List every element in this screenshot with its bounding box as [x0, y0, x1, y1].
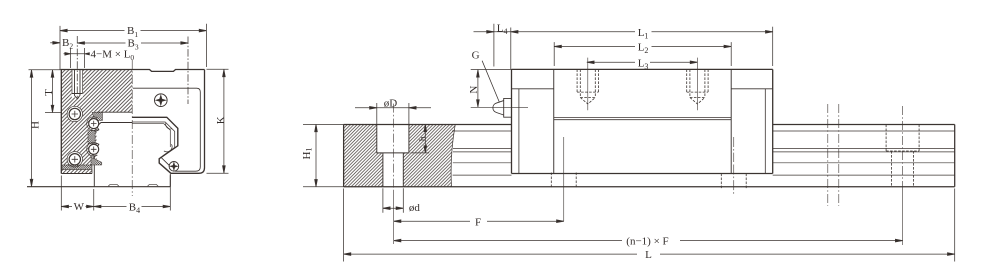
G leader line	[482, 61, 499, 103]
svg-text:H1: H1	[301, 148, 314, 160]
svg-text:K: K	[215, 116, 227, 124]
rail groove lines right of block	[773, 131, 955, 175]
svg-text:B2: B2	[62, 37, 73, 51]
svg-text:L4: L4	[497, 22, 508, 36]
T bottom extension line	[45, 112, 61, 114]
od dimension double arrow	[383, 207, 403, 209]
screw top (phillips)	[155, 94, 168, 107]
ball bore 2 white	[67, 151, 83, 167]
H1 dimension line	[315, 125, 317, 187]
T top extension line	[29, 69, 62, 71]
ball bore 1 white	[67, 106, 83, 122]
screw bottom (phillips)	[169, 162, 179, 172]
tapped hole minor diameter	[72, 70, 83, 99]
T dimension line	[52, 70, 54, 113]
centerline of left view	[131, 60, 133, 196]
end cap parting lines	[554, 69, 731, 173]
svg-text:T: T	[43, 89, 55, 96]
counterbore white pocket	[377, 124, 409, 187]
black seal piece P3 below ball 4	[91, 157, 102, 165]
counterbore outline	[377, 125, 409, 187]
end plate inner contour	[133, 88, 200, 171]
carriage outline with top recess	[61, 70, 204, 174]
ball 4 retainer arc	[87, 142, 98, 156]
svg-text:L3: L3	[638, 57, 649, 71]
svg-text:L: L	[645, 249, 652, 261]
svg-text:(n−1) × F: (n−1) × F	[626, 235, 668, 247]
ball 1	[69, 108, 80, 119]
svg-text:G: G	[472, 50, 480, 62]
L extension lines	[344, 189, 955, 262]
rail section break line	[451, 125, 455, 187]
carriage ceiling line (section)	[97, 111, 133, 113]
L1 right extension	[772, 27, 774, 66]
rail hole 2 dashed (under block)	[551, 173, 576, 189]
carriage hatched section (left half)	[61, 70, 132, 165]
block mounting hole left (dashed)	[577, 69, 598, 104]
rail hole 2 centerline	[563, 137, 565, 221]
B3 dimension line	[77, 42, 188, 44]
svg-text:N: N	[468, 86, 480, 94]
svg-text:L1: L1	[638, 27, 649, 41]
svg-text:H: H	[30, 121, 42, 129]
4-M extension lines	[71, 48, 85, 68]
hole left centerline	[587, 58, 589, 111]
rail hatched lengthwise section	[344, 125, 456, 187]
rail hole 4 centerline	[902, 106, 904, 190]
ball 4	[89, 144, 99, 154]
h dimension	[411, 152, 430, 154]
leg lower hatched strip	[61, 170, 92, 174]
nipple centerline	[471, 106, 528, 108]
oD dimension line with outside arrows	[355, 107, 431, 109]
rail outline: left end, top, bottom	[344, 125, 955, 187]
rail hole 3 dashed (under end cap)	[721, 174, 746, 189]
svg-text:W: W	[74, 201, 85, 213]
F dimension line	[394, 220, 564, 222]
B3 right extension centerline	[187, 37, 189, 105]
W dimension line	[61, 206, 93, 208]
grease nipple	[504, 98, 512, 117]
ball 2	[69, 154, 80, 165]
B4 dimension line	[94, 206, 171, 208]
od extension lines	[383, 188, 403, 213]
B2 outside arrow	[50, 42, 60, 44]
L4 extension line	[493, 24, 495, 67]
svg-text:4−M × L0: 4−M × L0	[91, 48, 135, 62]
block top extension to left	[471, 68, 512, 70]
N dimension	[477, 70, 479, 107]
hole centerline ext for B2/B3	[76, 36, 78, 99]
block outline	[512, 69, 773, 173]
hole right centerline	[696, 58, 698, 111]
ball 1 bore	[67, 106, 82, 121]
(n-1)xF dimension line	[394, 240, 903, 242]
svg-text:L2: L2	[638, 42, 649, 56]
bottom seal checker strip	[62, 165, 92, 170]
L4 dimension line + outside arrow	[474, 31, 511, 33]
block mounting hole right (dashed)	[687, 69, 708, 104]
K dimension line	[223, 70, 225, 173]
L3 dimension line	[587, 61, 698, 63]
L1/L4 left extension	[510, 28, 512, 70]
rail bottom bumps	[108, 185, 158, 187]
end view rail profile seen through opening	[132, 124, 170, 187]
H dimension line	[31, 70, 33, 187]
tapped hole 4-M thread lines	[72, 70, 83, 94]
carriage right edge outer with rounded bottom corner	[171, 70, 205, 174]
H1 extension lines	[303, 125, 344, 187]
end cap horizontal lines	[512, 88, 773, 90]
black seal piece P2 between balls 3 and 4	[88, 131, 95, 144]
end seal lines	[519, 89, 765, 174]
seal lip arc lower	[164, 144, 172, 152]
end view seal opening outer contour (thick)	[132, 117, 178, 173]
leg inner edge	[91, 170, 93, 174]
svg-text:B4: B4	[129, 201, 140, 215]
ball 3	[89, 119, 99, 129]
end view seal opening inner contour	[132, 122, 175, 156]
svg-text:F: F	[475, 217, 481, 229]
svg-text:ød: ød	[409, 202, 421, 214]
4-M dimension line with outside arrows	[64, 53, 85, 55]
leg bottom edge	[61, 173, 92, 175]
L2 dimension line	[554, 46, 731, 48]
L2 extension lines	[554, 42, 731, 66]
svg-text:h: h	[419, 136, 429, 141]
ball 2 bore	[67, 152, 82, 167]
rail hole 3 centerline	[733, 137, 735, 195]
W/B4 extension lines	[61, 176, 170, 211]
rail groove lines left of block	[452, 131, 512, 175]
L dimension line	[344, 253, 955, 255]
seal lip arc upper	[166, 123, 172, 129]
svg-text:øD: øD	[384, 98, 398, 110]
rail hole 4 dashed (visible right)	[886, 125, 919, 187]
rail section outline (left half)	[91, 123, 133, 187]
K extension lines	[207, 69, 229, 173]
rail right side below end cap	[169, 175, 171, 187]
tapped hole white pocket	[72, 69, 83, 98]
hole 1 centerline	[393, 104, 395, 190]
oD extension lines	[377, 103, 409, 124]
B1 extension lines	[60, 24, 206, 70]
rail bottom line with H extension	[27, 186, 170, 188]
body lower double line	[554, 118, 731, 120]
B1 dimension line	[60, 30, 206, 32]
L1 dimension line	[511, 31, 773, 33]
ball 3 retainer arc	[87, 117, 98, 131]
rail break phantom lines	[828, 104, 839, 206]
black seal piece P1 above ball 3	[92, 112, 103, 120]
